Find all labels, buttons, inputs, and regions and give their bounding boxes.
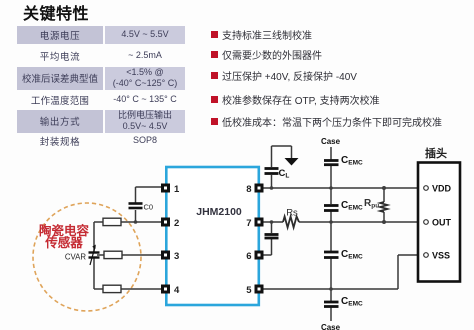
svg-text:传感器: 传感器 <box>44 235 83 250</box>
svg-text:JHM2100: JHM2100 <box>196 206 242 218</box>
svg-text:CEMC: CEMC <box>341 296 363 308</box>
svg-text:Case: Case <box>321 137 341 146</box>
svg-text:C0: C0 <box>144 203 154 212</box>
svg-text:CEMC: CEMC <box>341 155 363 167</box>
svg-text:4: 4 <box>174 285 180 296</box>
svg-text:5: 5 <box>246 285 252 296</box>
svg-text:CEMC: CEMC <box>341 200 363 212</box>
svg-text:Case: Case <box>321 323 341 330</box>
svg-text:6: 6 <box>246 251 251 262</box>
svg-text:Rs: Rs <box>286 208 298 219</box>
svg-text:CEMC: CEMC <box>341 249 363 261</box>
svg-text:7: 7 <box>246 218 251 229</box>
svg-text:3: 3 <box>174 251 179 262</box>
svg-text:8: 8 <box>246 184 251 195</box>
svg-text:VSS: VSS <box>432 251 450 261</box>
svg-text:OUT: OUT <box>432 218 452 228</box>
svg-text:Rpu: Rpu <box>364 198 379 210</box>
svg-text:1: 1 <box>174 184 180 195</box>
svg-text:VDD: VDD <box>432 184 452 194</box>
svg-text:插头: 插头 <box>425 146 447 160</box>
svg-text:CVAR: CVAR <box>65 253 86 262</box>
svg-text:2: 2 <box>174 218 179 229</box>
svg-text:CL: CL <box>279 168 290 180</box>
